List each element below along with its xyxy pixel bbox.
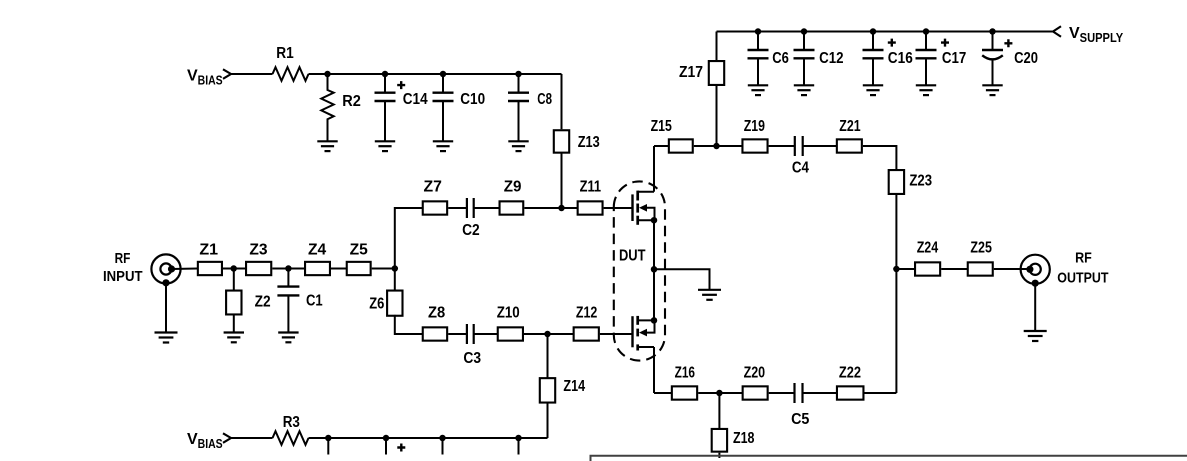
wire bbox=[165, 283, 167, 333]
resistor R1 bbox=[273, 67, 309, 81]
ground below C1 bbox=[278, 333, 298, 343]
node Q1 source junction bbox=[651, 217, 658, 224]
wire bbox=[895, 193, 897, 269]
svg-text:C2: C2 bbox=[462, 222, 480, 239]
wire bbox=[718, 393, 720, 429]
svg-text:Z8: Z8 bbox=[428, 304, 445, 321]
svg-text:RF: RF bbox=[115, 250, 131, 267]
node C20 junction bbox=[989, 28, 996, 35]
wire bbox=[233, 314, 235, 333]
ground below C6 bbox=[748, 85, 768, 95]
svg-text:C5: C5 bbox=[791, 411, 809, 428]
wire bbox=[474, 207, 500, 209]
svg-text:Z15: Z15 bbox=[651, 118, 672, 135]
wire bbox=[600, 333, 633, 335]
capacitor C2 bbox=[462, 198, 480, 239]
impedance Z1 bbox=[198, 262, 222, 275]
connector chevron VSUPPLY bbox=[1053, 26, 1061, 36]
ground below C10 bbox=[433, 141, 453, 151]
resistor R3 bbox=[273, 431, 309, 445]
node RF INPUT label bbox=[103, 250, 143, 285]
impedance Z10 bbox=[498, 327, 523, 340]
impedance Z23 bbox=[889, 170, 904, 194]
ground below Z2 bbox=[224, 333, 244, 343]
wire bbox=[994, 268, 1030, 270]
capacitor C8 bbox=[508, 74, 552, 141]
svg-text:Z13: Z13 bbox=[578, 134, 600, 151]
resistor R2 bbox=[321, 74, 333, 141]
capacitor C14 bbox=[375, 74, 428, 141]
connector RF output coax bbox=[1021, 255, 1050, 287]
wire bbox=[604, 207, 633, 209]
impedance Z7 bbox=[423, 201, 447, 214]
impedance Z2 bbox=[226, 291, 241, 315]
node C8 junction bbox=[515, 71, 522, 78]
transistor Q2 lower MOSFET bbox=[633, 316, 655, 351]
svg-text:VBIAS: VBIAS bbox=[187, 68, 223, 88]
node Z14 top junction bbox=[544, 331, 551, 338]
capacitor C1 bbox=[277, 269, 322, 333]
wire bias cap 4 stub bbox=[518, 438, 520, 455]
wire bbox=[172, 268, 198, 271]
svg-text:C1: C1 bbox=[306, 292, 323, 309]
impedance Z22 bbox=[837, 386, 864, 399]
impedance Z24 bbox=[915, 262, 940, 275]
svg-text:Z3: Z3 bbox=[249, 242, 267, 259]
node C10 junction bbox=[440, 71, 447, 78]
svg-text:Z18: Z18 bbox=[733, 430, 755, 447]
impedance Z5 bbox=[347, 262, 371, 275]
svg-text:C4: C4 bbox=[792, 160, 809, 177]
ground below C12 bbox=[794, 85, 814, 95]
svg-text:R3: R3 bbox=[283, 414, 300, 431]
impedance Z21 bbox=[837, 139, 862, 152]
svg-text:C12: C12 bbox=[819, 50, 843, 67]
svg-text:C14: C14 bbox=[403, 91, 428, 108]
svg-text:Z10: Z10 bbox=[497, 304, 520, 321]
svg-text:Z4: Z4 bbox=[308, 242, 326, 259]
capacitor C6 bbox=[748, 32, 789, 86]
svg-text:Z22: Z22 bbox=[839, 365, 861, 382]
ground DUT source bbox=[698, 290, 721, 300]
wire bias cap 1 stub bbox=[327, 438, 329, 455]
wire mid node to ground bbox=[654, 269, 710, 290]
wire bbox=[233, 269, 235, 291]
wire bbox=[272, 268, 305, 270]
svg-text:C10: C10 bbox=[460, 91, 485, 108]
impedance Z8 bbox=[423, 327, 447, 340]
wire bbox=[395, 315, 423, 334]
svg-text:R1: R1 bbox=[276, 45, 294, 62]
ground input connector bbox=[155, 333, 178, 343]
svg-text:Z25: Z25 bbox=[970, 240, 992, 257]
svg-text:RF: RF bbox=[1075, 249, 1092, 266]
node C16 junction bbox=[870, 28, 877, 35]
wire bbox=[231, 437, 273, 439]
wire bbox=[561, 74, 563, 129]
impedance Z12 bbox=[574, 327, 599, 340]
wire bias cap 2 stub bbox=[386, 438, 405, 455]
impedance Z15 bbox=[669, 139, 693, 152]
wire output node down bbox=[895, 269, 897, 393]
wire bbox=[547, 334, 549, 378]
node split junction bbox=[392, 265, 399, 272]
wire bbox=[231, 73, 273, 75]
svg-text:C8: C8 bbox=[537, 91, 552, 108]
wire bbox=[223, 268, 246, 270]
wire bbox=[372, 268, 395, 270]
svg-text:OUTPUT: OUTPUT bbox=[1057, 270, 1108, 287]
svg-text:INPUT: INPUT bbox=[103, 268, 143, 285]
node Z13 bottom junction bbox=[558, 205, 565, 212]
impedance Z19 bbox=[742, 139, 767, 152]
node Q2 drain junction bbox=[651, 317, 658, 324]
ground below R2 bbox=[317, 141, 337, 151]
wire bbox=[803, 392, 837, 394]
svg-text:VSUPPLY: VSUPPLY bbox=[1069, 25, 1124, 45]
wire Q1 source to Q2 drain bbox=[653, 220, 655, 320]
transistor Q1 upper MOSFET bbox=[633, 191, 655, 225]
node output junction bbox=[893, 266, 900, 273]
wire bbox=[803, 145, 837, 147]
svg-text:Z16: Z16 bbox=[675, 365, 695, 382]
wire bbox=[654, 392, 672, 394]
wire bbox=[694, 145, 743, 147]
wire bbox=[896, 268, 915, 270]
wire bottom bias rail bbox=[309, 437, 548, 439]
wire bbox=[863, 146, 897, 170]
ground below C16 bbox=[863, 85, 883, 95]
wire Q2 source down bbox=[653, 347, 655, 393]
node Z17 bottom junction bbox=[713, 143, 720, 150]
ground below C8 bbox=[508, 141, 528, 151]
svg-text:Z5: Z5 bbox=[350, 242, 368, 259]
capacitor C5 bbox=[791, 383, 809, 428]
wire bbox=[524, 333, 574, 335]
svg-text:Z24: Z24 bbox=[917, 240, 939, 257]
node RF OUTPUT label bbox=[1057, 249, 1108, 286]
wire bbox=[865, 392, 897, 394]
wire bbox=[941, 268, 967, 270]
wire bbox=[769, 392, 795, 394]
capacitor C12 bbox=[794, 32, 844, 86]
svg-text:C16: C16 bbox=[888, 50, 913, 67]
wire bbox=[547, 402, 549, 438]
svg-text:VBIAS: VBIAS bbox=[187, 431, 223, 451]
svg-text:Z19: Z19 bbox=[744, 118, 765, 135]
svg-text:C17: C17 bbox=[942, 50, 966, 67]
svg-text:R2: R2 bbox=[342, 93, 361, 110]
impedance Z17 bbox=[679, 32, 724, 147]
svg-text:DUT: DUT bbox=[619, 248, 646, 265]
node DUT mid junction bbox=[651, 266, 658, 273]
node Z18 top junction bbox=[716, 390, 723, 397]
capacitor C3 bbox=[463, 324, 481, 367]
impedance Z20 bbox=[743, 386, 768, 399]
svg-text:C3: C3 bbox=[463, 350, 481, 367]
wire bbox=[524, 207, 577, 209]
node bias cap 2 junction bbox=[383, 435, 390, 442]
svg-text:Z7: Z7 bbox=[424, 179, 443, 196]
wire bbox=[654, 145, 669, 147]
ground below C17 bbox=[916, 85, 936, 95]
node bias cap 1 junction bbox=[325, 435, 332, 442]
wire bbox=[698, 392, 742, 394]
impedance Z11 bbox=[578, 201, 603, 214]
impedance Z3 bbox=[246, 262, 271, 275]
wire bbox=[474, 333, 498, 335]
svg-text:C6: C6 bbox=[772, 50, 789, 67]
wire bbox=[561, 153, 563, 208]
wire Q1 drain up bbox=[653, 146, 655, 192]
wire bbox=[448, 333, 467, 335]
connector chevron VBIAS top bbox=[223, 69, 231, 79]
node bias cap 4 junction bbox=[515, 435, 522, 442]
svg-text:C20: C20 bbox=[1014, 50, 1038, 67]
svg-text:Z9: Z9 bbox=[504, 179, 522, 196]
wire top bias rail bbox=[328, 73, 562, 75]
impedance Z14 bbox=[540, 378, 555, 402]
node C14 junction bbox=[382, 71, 389, 78]
svg-text:Z12: Z12 bbox=[576, 304, 597, 321]
node C6 junction bbox=[755, 28, 762, 35]
wire bbox=[395, 208, 423, 269]
node R1/R2 junction bbox=[324, 71, 331, 78]
node C12 junction bbox=[801, 28, 808, 35]
svg-text:Z2: Z2 bbox=[255, 294, 271, 311]
impedance Z13 bbox=[554, 130, 569, 152]
connector chevron VBIAS bottom bbox=[223, 433, 231, 443]
node C1 junction bbox=[285, 265, 292, 272]
wire bbox=[394, 269, 396, 291]
capacitor C4 bbox=[792, 136, 809, 177]
wire bbox=[448, 207, 467, 209]
impedance Z16 bbox=[672, 386, 697, 399]
wire bbox=[1034, 283, 1036, 331]
ground below C14 bbox=[375, 141, 395, 151]
impedance Z9 bbox=[500, 201, 524, 214]
wire VSUPPLY rail bbox=[717, 31, 1054, 33]
svg-text:Z11: Z11 bbox=[580, 179, 602, 196]
svg-text:Z23: Z23 bbox=[909, 173, 932, 190]
node C17 junction bbox=[923, 28, 930, 35]
impedance Z4 bbox=[305, 262, 330, 275]
svg-text:Z17: Z17 bbox=[679, 64, 703, 81]
capacitor C17 bbox=[916, 32, 967, 86]
wire bbox=[331, 268, 347, 270]
node bias cap 3 junction bbox=[439, 435, 446, 442]
capacitor C16 bbox=[863, 32, 913, 86]
svg-text:Z20: Z20 bbox=[744, 365, 766, 382]
wire bias cap 3 stub bbox=[442, 438, 444, 455]
wire bbox=[309, 73, 328, 75]
DUT dashed outline bbox=[614, 181, 665, 360]
ground output connector bbox=[1024, 331, 1047, 341]
svg-text:Z21: Z21 bbox=[839, 118, 860, 135]
svg-text:Z6: Z6 bbox=[369, 295, 384, 312]
node Z1/Z3 junction bbox=[230, 265, 237, 272]
svg-text:Z14: Z14 bbox=[563, 378, 585, 395]
capacitor C20 bbox=[982, 32, 1038, 86]
impedance Z6 bbox=[387, 291, 402, 316]
svg-text:Z1: Z1 bbox=[199, 242, 218, 259]
ground below C20 bbox=[982, 85, 1002, 95]
connector RF input coax bbox=[151, 254, 180, 286]
table border bottom right bbox=[591, 456, 1187, 461]
impedance Z18 bbox=[712, 429, 755, 458]
wire bbox=[769, 145, 795, 147]
impedance Z25 bbox=[968, 262, 993, 275]
capacitor C10 bbox=[433, 74, 486, 141]
